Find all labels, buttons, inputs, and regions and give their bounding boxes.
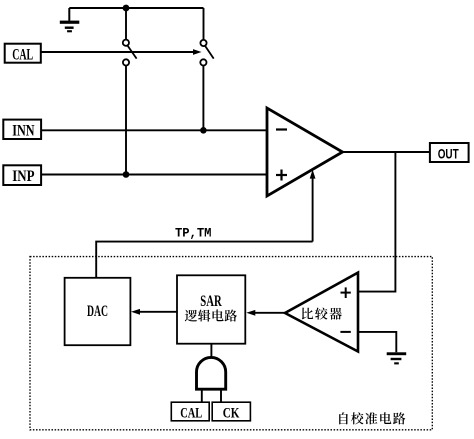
wire: CAL control line with arrow to S2 — [41, 51, 194, 53]
wire: output branch down to comparator plus input — [358, 152, 395, 292]
svg-text:TP,TM: TP,TM — [175, 226, 212, 241]
switch S1 (left) — [123, 40, 137, 66]
AND gate G1 — [197, 357, 226, 389]
wire: top rail from GND1 to right switch — [69, 7, 203, 9]
svg-text:CAL: CAL — [180, 405, 202, 421]
port box CAL (clock enable) — [171, 402, 209, 421]
U2 minus pin label — [340, 331, 350, 333]
op-amp U1 (main comparator) — [267, 108, 343, 196]
U2 plus pin label — [341, 287, 351, 298]
port box INP — [3, 165, 41, 185]
wire: U2 output to SAR arrow — [252, 312, 285, 314]
wire: SAR to DAC arrow — [138, 311, 177, 313]
port box OUT — [430, 143, 469, 162]
svg-text:INP: INP — [12, 168, 35, 185]
block SAR logic — [177, 275, 245, 343]
svg-text:OUT: OUT — [438, 146, 459, 162]
wire: U1 output to OUT — [343, 151, 430, 153]
wire: AND input stub to CK — [220, 389, 222, 402]
ground GND2 (bottom-right) — [387, 352, 407, 364]
junction node (S2/INN) — [200, 127, 207, 134]
junction node (top rail to S1) — [123, 5, 130, 12]
comparator U2 (calibration comparator) — [285, 273, 358, 352]
wire: TP,TM line from DAC to U1 arrow — [96, 242, 312, 278]
ground GND1 (top-left) — [68, 8, 70, 21]
wire: INN to op-amp inverting input — [41, 129, 267, 131]
port box CK (clock) — [212, 402, 250, 421]
svg-text:CK: CK — [223, 405, 240, 421]
dashed enclosure (self-calibration circuit) — [30, 257, 432, 430]
wire: top rail down to S1 — [125, 8, 127, 40]
junction node (S1/INP) — [123, 171, 130, 178]
wire: S2 down to INN line — [202, 66, 204, 131]
label comparator (Chinese) — [302, 307, 342, 319]
wire: SAR bottom to AND gate — [210, 344, 212, 357]
svg-text:SAR: SAR — [200, 293, 222, 310]
wire: U2 minus input to ground — [358, 332, 396, 352]
svg-text:INN: INN — [12, 122, 34, 139]
U1 minus pin label — [276, 128, 287, 130]
label SAR logic circuit (Chinese) — [185, 310, 237, 322]
U1 plus pin label — [276, 170, 287, 181]
label self-calibration circuit (Chinese) — [339, 412, 405, 424]
wire: AND input stub to CAL — [201, 389, 203, 402]
switch S2 (right) — [200, 40, 213, 66]
wire: DAC feedback arrow into U1 — [312, 177, 314, 242]
svg-text:DAC: DAC — [87, 303, 108, 320]
port box CAL (input) — [5, 44, 41, 63]
svg-text:CAL: CAL — [12, 47, 33, 64]
port box INN — [3, 120, 41, 139]
wire: top rail down to S2 — [203, 8, 205, 40]
block DAC — [65, 278, 131, 345]
wire: S1 down to INP line — [125, 66, 127, 175]
wire: INP to op-amp non-inverting input — [41, 174, 267, 176]
